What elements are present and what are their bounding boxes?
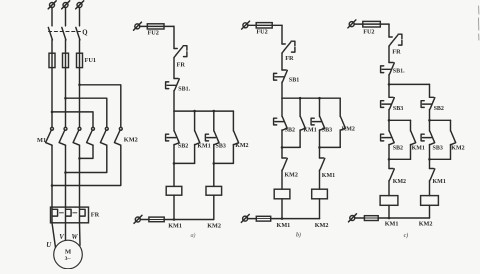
- FR heater element 1: [51, 207, 53, 223]
- wire coil KM1 bottom (b): [281, 199, 283, 219]
- svg-text:SB2: SB2: [434, 106, 444, 112]
- wire c bottom left: [355, 217, 365, 219]
- wire SB3 down (b): [319, 130, 321, 147]
- compound button SB2 break contact (c): [430, 96, 434, 98]
- wire b bottom: [271, 218, 320, 220]
- svg-text:KM2: KM2: [419, 220, 433, 227]
- svg-text:FU1: FU1: [85, 57, 97, 64]
- compound button SB3 break contact (c): [389, 96, 393, 98]
- svg-text:FR: FR: [91, 211, 100, 218]
- node bus-KM1 (b): [299, 97, 302, 100]
- wire pair bus left (c): [389, 119, 411, 121]
- wire b down to FR: [281, 25, 283, 44]
- svg-text:FU2: FU2: [148, 30, 159, 37]
- wire KM2 down (b): [339, 130, 341, 147]
- wire SB1 to bus (b): [281, 82, 283, 98]
- wire drop SB3 (c): [429, 120, 431, 131]
- wire pole4 to phase3 join: [80, 145, 94, 158]
- wire SB2 down (a): [173, 145, 175, 164]
- svg-text:SB1.: SB1.: [393, 69, 405, 75]
- wire FR to SB1 (b): [281, 53, 283, 70]
- wire join right pair (a): [214, 162, 234, 164]
- svg-text:KM1: KM1: [197, 144, 210, 150]
- wire drop SB3 (b): [319, 98, 321, 116]
- wire phase1 down: [51, 68, 53, 127]
- fuse FU1 element1: [51, 53, 53, 67]
- node bus-SB3 (a): [213, 110, 216, 113]
- svg-text:KM1: KM1: [412, 146, 425, 152]
- wire FR to motor V: [65, 223, 67, 241]
- wire KM1 down (b): [299, 130, 301, 147]
- coil KM2 (a): [206, 186, 222, 195]
- svg-text:c): c): [404, 232, 409, 239]
- wire join right pair (c): [430, 158, 451, 160]
- aux contact KM2 (a): [233, 131, 238, 145]
- svg-text:3~: 3~: [65, 256, 71, 262]
- svg-text:SB3: SB3: [433, 146, 443, 152]
- svg-text:FU2: FU2: [363, 28, 374, 35]
- node phase3 branch: [78, 84, 81, 87]
- terminal a bottom: [135, 217, 140, 222]
- node bus1 (c): [388, 83, 391, 86]
- wire L1 to Q: [51, 7, 53, 26]
- svg-text:FR: FR: [177, 62, 186, 69]
- node bottom KM1 (c): [388, 217, 391, 220]
- node join left (b): [281, 146, 284, 149]
- wire bus (b): [282, 97, 340, 99]
- svg-text:KM1: KM1: [168, 222, 182, 229]
- switch Q pole 2: [62, 27, 66, 40]
- terminal L2: [63, 3, 68, 8]
- svg-text:KM2: KM2: [342, 126, 355, 132]
- fuse FU2 (a): [147, 24, 164, 29]
- svg-text:b): b): [296, 232, 301, 239]
- start button SB3 (a): [214, 131, 219, 145]
- stop button SB1 (a): [174, 78, 178, 80]
- wire drop SB2nc (c): [429, 84, 431, 97]
- wire SB1 to bus (c): [388, 75, 390, 85]
- node bus-SB3 (b): [318, 97, 321, 100]
- start button SB2 make contact (c): [389, 131, 394, 145]
- svg-text:KM1: KM1: [385, 220, 399, 227]
- svg-text:W: W: [72, 234, 79, 241]
- terminal b top: [243, 23, 248, 28]
- fuse FU2 (b): [256, 23, 272, 28]
- svg-text:KM2: KM2: [315, 222, 329, 229]
- node join pole3-pole4: [78, 157, 81, 160]
- aux contact KM1 (a): [195, 131, 200, 145]
- wire drop KM2 (b): [339, 98, 341, 116]
- wire drop SB3 (a): [213, 111, 215, 131]
- thermal contact FR (a): [174, 48, 177, 50]
- wire drop KM2 (a): [232, 111, 234, 131]
- svg-text:SB3: SB3: [216, 144, 226, 150]
- contactor KM1 main contact 1: [51, 127, 54, 130]
- terminal a top: [135, 24, 140, 29]
- svg-text:KM2: KM2: [124, 137, 138, 144]
- wire join left pair (a): [174, 162, 195, 164]
- coil KM1 (a): [166, 186, 182, 195]
- svg-text:KM1: KM1: [303, 128, 316, 134]
- wire c bottom: [378, 217, 429, 219]
- fuse FU2 (c): [363, 21, 381, 27]
- wire phase1 to KM2 pole4: [52, 112, 93, 127]
- contactor KM2 main contact 2: [105, 127, 108, 130]
- wire L2 to Q: [65, 7, 67, 26]
- interlock contact KM2 (c): [389, 168, 393, 170]
- wire a down to FR: [173, 26, 175, 48]
- wire to interlock KM1 (b): [319, 147, 321, 158]
- wire Q to FU1 phase1: [51, 40, 53, 53]
- wire to interlock KM2 (c): [388, 159, 390, 168]
- fuse a bottom: [149, 217, 164, 222]
- svg-text:KM2: KM2: [235, 143, 248, 149]
- svg-text:Q: Q: [82, 29, 87, 36]
- wire coil KM2 bottom (c): [429, 205, 431, 218]
- fuse FU1 element2: [65, 53, 67, 67]
- wire coil KM2 bottom (b): [319, 199, 321, 219]
- wire c down to FR: [388, 24, 390, 37]
- wire SB3nc down (c): [388, 110, 390, 121]
- wire drop KM1 (a): [194, 111, 196, 131]
- wire drop KM1 (b): [299, 98, 301, 116]
- wire to interlock KM1 (c): [429, 159, 431, 168]
- node join pole1-pole6: [51, 184, 54, 187]
- wire SB3 down (c): [429, 145, 431, 160]
- terminal L1: [50, 3, 55, 8]
- wire SB2 down (b): [281, 130, 283, 147]
- node bus-KM1 (a): [193, 110, 196, 113]
- node join left (c): [388, 158, 391, 161]
- wire to coil KM1 (b): [281, 170, 283, 189]
- fuse FU1 element3: [79, 53, 81, 67]
- svg-text:M: M: [65, 248, 72, 255]
- wire phase2 down: [65, 68, 67, 127]
- switch Q pole 3: [76, 27, 80, 40]
- wire KM1 down (c): [410, 145, 412, 160]
- node join left (a): [173, 162, 176, 165]
- thermal relay FR box: [51, 207, 89, 223]
- stop button SB1 (b): [282, 69, 286, 71]
- svg-text:V: V: [59, 234, 64, 241]
- contactor KM2 main contact 1: [92, 127, 95, 130]
- wire b bottom left: [248, 218, 257, 220]
- interlock contact KM1 (c): [430, 168, 434, 170]
- node pair left (c): [388, 119, 391, 122]
- fuse b bottom: [256, 216, 270, 221]
- wire phase1 to FR: [51, 145, 53, 207]
- aux contact KM1 (c): [411, 131, 416, 145]
- wire drop KM2 (c): [450, 120, 452, 131]
- wire FR to motor W: [79, 223, 82, 246]
- motor M 3~: [54, 240, 83, 269]
- svg-text:KM2: KM2: [393, 179, 406, 185]
- wire a bottom left: [140, 219, 149, 221]
- wire a top: [140, 25, 174, 27]
- scan artifact right edge: [478, 6, 480, 40]
- terminal L3: [77, 3, 82, 8]
- wire drop SB2 (a): [173, 111, 175, 131]
- wire drop KM1 (c): [410, 120, 412, 131]
- contactor KM1 main contact 2: [64, 127, 67, 130]
- wire FR to motor U: [52, 223, 56, 248]
- svg-text:SB1: SB1: [289, 77, 299, 83]
- wire join left pair (b): [282, 146, 300, 148]
- wire a bottom: [164, 219, 214, 221]
- svg-text:FR: FR: [285, 55, 294, 62]
- wire join right pair (b): [320, 146, 341, 148]
- svg-text:KM1: KM1: [322, 173, 335, 179]
- wire c top: [354, 23, 389, 25]
- wire Q to FU1 phase3: [79, 40, 81, 53]
- interlock contact KM1 (b): [320, 157, 324, 159]
- wire drop SB2 (c): [388, 120, 390, 131]
- switch Q linkage: [49, 31, 81, 33]
- terminal b bottom: [243, 216, 248, 221]
- wire KM1 down (a): [194, 145, 196, 164]
- wire coil KM1 bottom (a): [173, 195, 175, 219]
- svg-text:a): a): [191, 232, 196, 239]
- contactor KM1 main contact 3: [78, 127, 81, 130]
- node join right (b): [318, 146, 321, 149]
- svg-text:KM2: KM2: [207, 222, 221, 229]
- wire to coil KM2 (b): [319, 170, 321, 189]
- start button SB2 (a): [174, 131, 179, 145]
- wire phase3 to FR: [79, 145, 81, 207]
- start button SB3 make contact (c): [430, 131, 435, 145]
- wire to coil KM1 (a): [173, 163, 175, 186]
- svg-text:KM2: KM2: [451, 146, 464, 152]
- thermal contact FR (c): [389, 36, 392, 38]
- coil KM2 (b): [312, 189, 328, 199]
- svg-text:SB2: SB2: [178, 144, 188, 150]
- switch Q pole 1: [48, 27, 52, 40]
- svg-text:KM2: KM2: [285, 172, 298, 178]
- wire Q to FU1 phase2: [65, 40, 67, 53]
- node bottom KM1 (b): [281, 217, 284, 220]
- wire phase2 to KM2 pole5: [66, 98, 107, 127]
- wire pole6 to phase1 join: [52, 145, 121, 185]
- wire SB2 down (c): [388, 145, 390, 160]
- wire SB3 down (a): [213, 145, 215, 164]
- svg-text:SB2: SB2: [285, 128, 295, 134]
- fuse c bottom: [364, 216, 378, 221]
- svg-text:SB3: SB3: [322, 128, 332, 134]
- wire bus1 (c): [389, 83, 430, 85]
- wire phase3 to KM2 pole6: [80, 85, 121, 127]
- node phase2 branch: [64, 97, 67, 100]
- wire join left pair (c): [389, 158, 411, 160]
- wire drop SB2 (b): [281, 98, 283, 116]
- svg-text:FR: FR: [392, 49, 401, 56]
- stop button SB1 (c): [389, 62, 393, 64]
- terminal c top: [349, 22, 354, 27]
- start button SB3 (b): [320, 117, 325, 131]
- wire SB1 to bus (a): [173, 91, 175, 111]
- node join right (a): [213, 162, 216, 165]
- wire L3 to Q: [79, 7, 81, 26]
- contactor KM2 main contact 3: [119, 127, 122, 130]
- wire FR to SB1 (c): [388, 46, 390, 63]
- FR heater element 2: [65, 207, 67, 223]
- terminal c bottom: [350, 216, 355, 221]
- wire bus (a): [174, 110, 233, 112]
- svg-text:FU2: FU2: [256, 29, 267, 36]
- wire phase2 to FR: [65, 145, 67, 207]
- wire KM2 down (c): [450, 145, 452, 160]
- wire to coil KM2 (c): [429, 181, 431, 196]
- wire KM2 down (a): [232, 145, 234, 164]
- aux contact KM2 (b): [340, 117, 345, 131]
- wire SB2nc down (c): [429, 110, 431, 121]
- interlock contact KM2 (b): [282, 157, 286, 159]
- node phase1 branch: [51, 111, 54, 114]
- svg-text:SB3: SB3: [393, 106, 403, 112]
- FR heater element 3: [79, 207, 81, 223]
- wire pair bus right (c): [430, 119, 451, 121]
- node pair right (c): [428, 119, 431, 122]
- wire drop SB3nc (c): [388, 84, 390, 97]
- node join right (c): [428, 158, 431, 161]
- aux contact KM2 (c): [451, 131, 456, 145]
- wire b top: [248, 24, 282, 26]
- thermal contact FR (b): [282, 43, 285, 45]
- wire phase3 down: [79, 68, 81, 127]
- wire pole5 to phase2 join: [66, 145, 107, 172]
- node bottom KM1 (a): [173, 218, 176, 221]
- wire to coil KM1 (c): [388, 181, 390, 196]
- start button SB2 (b): [282, 117, 287, 131]
- wire FR to SB1 (a): [173, 58, 175, 79]
- FR linkage dash 2: [73, 212, 77, 214]
- wire coil KM2 bottom (a): [213, 195, 215, 219]
- coil KM1 (c): [380, 196, 398, 206]
- svg-text:KM1: KM1: [433, 179, 446, 185]
- wire to coil KM2 (a): [213, 163, 215, 186]
- svg-text:SB2: SB2: [393, 146, 403, 152]
- FR linkage dash 1: [59, 212, 63, 214]
- wire coil KM1 bottom (c): [388, 205, 390, 218]
- svg-text:M1: M1: [37, 137, 46, 144]
- svg-text:KM1: KM1: [277, 222, 291, 229]
- svg-text:SB1.: SB1.: [178, 86, 190, 92]
- node join pole2-pole5: [64, 171, 67, 174]
- aux contact KM1 (b): [300, 117, 305, 131]
- wire to interlock KM2 (b): [281, 147, 283, 158]
- coil KM1 (b): [274, 189, 290, 199]
- coil KM2 (c): [421, 196, 439, 206]
